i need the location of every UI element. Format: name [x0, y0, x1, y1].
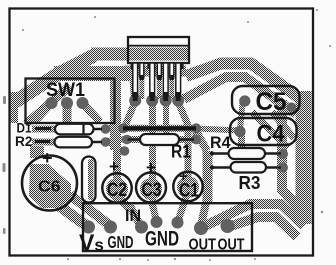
wire SW1 middle stem — [63, 103, 72, 126]
wire R1 right pad column — [193, 126, 200, 141]
pad IC pin4 — [172, 95, 184, 107]
svg-text:R1: R1 — [171, 142, 191, 162]
wire upper horizontal band into IC body — [91, 48, 189, 61]
wire right edge vertical band — [296, 91, 312, 224]
wire IC pad2 feed to C3 — [149, 100, 156, 207]
wire pin gap vertical c — [169, 74, 174, 99]
IC short pin 1 — [140, 63, 144, 80]
pad IC pin2 — [146, 95, 158, 107]
pad box GND mid — [151, 216, 163, 228]
IC U1 body — [128, 37, 189, 63]
wire OUT2 stem to corner — [228, 217, 297, 237]
capacitor C4 — [230, 118, 297, 148]
IC pin stubs — [131, 63, 184, 69]
svg-text:C5: C5 — [256, 88, 287, 116]
diode D1 — [17, 121, 103, 136]
wire R4 left vertical elbow to OUT1 pad — [201, 200, 207, 226]
pad IC pin3 — [160, 95, 172, 107]
wire C4 pad to R4 stem — [238, 133, 245, 149]
svg-text:+: + — [109, 157, 119, 176]
wire C6 to GND pad — [70, 195, 108, 224]
wire diagonal inside C4 — [252, 112, 288, 148]
pad column third — [120, 146, 130, 156]
wire C5 pad to C4 pad stem — [240, 103, 243, 130]
capacitor C6 — [22, 148, 77, 211]
wire pin gap vertical b — [157, 74, 162, 99]
wire under R1 — [127, 136, 196, 143]
capacitor C5 — [232, 86, 300, 116]
wire IC pad3 feed — [163, 100, 169, 142]
wire main diagonal from border blob — [13, 56, 94, 104]
IC short pin 3 — [170, 63, 174, 80]
wire left-border blob — [10, 92, 18, 123]
wire bar to C4 pad — [196, 129, 240, 131]
pad jumper right — [191, 123, 201, 133]
pad C5 left — [239, 95, 250, 106]
pad box OUT2 — [221, 219, 235, 233]
pad box GND1 — [104, 221, 117, 234]
pad box OUT1 — [194, 221, 208, 235]
wire C2 feed — [113, 148, 121, 202]
pad R1 left — [122, 135, 132, 145]
wire chevron inner right of IC to C5 — [184, 77, 296, 114]
wire SW1 left stem — [34, 103, 52, 122]
wire second diagonal through SW1 — [26, 86, 70, 124]
wire chevron outer right of IC down right edge — [186, 64, 301, 100]
resistor R1 — [128, 134, 195, 162]
resistor R4 — [210, 133, 281, 159]
pad box GND2 — [135, 221, 148, 234]
wire OUT1 stem to corner — [201, 204, 304, 228]
pad box extra — [172, 217, 184, 229]
IC long pin 1 — [133, 63, 138, 101]
wire elbow down to pad column — [110, 74, 121, 150]
pad IC pin1 — [129, 95, 141, 107]
svg-text:+: + — [42, 148, 53, 168]
svg-text:R4: R4 — [210, 133, 231, 152]
wire C3 feed to GND-mid pad stem — [153, 204, 157, 220]
wire C1 to pad diagonal — [178, 191, 188, 221]
pad box Vs — [82, 221, 95, 234]
svg-text:+: + — [146, 158, 156, 177]
IC short pin 2 — [157, 63, 161, 80]
svg-text:R3: R3 — [239, 173, 261, 193]
jumper capsule — [82, 157, 96, 203]
wire R2 into C6 — [30, 146, 44, 158]
wire link to third pad — [108, 143, 124, 151]
pad SW1 b — [61, 97, 73, 109]
pad R2 right — [101, 137, 111, 147]
wire band under IC pins — [124, 66, 186, 77]
capacitor C2 — [102, 157, 131, 203]
pad SW1 c — [77, 97, 89, 109]
terminal box — [83, 203, 252, 251]
wire IN pad stem — [130, 206, 140, 225]
IC long pin 2 — [150, 63, 155, 101]
wire D1 lead squiggle — [32, 126, 56, 133]
wire R2 lead squiggle — [32, 139, 56, 146]
resistor R3 — [210, 162, 281, 193]
wire diagonal inside C4 right — [272, 112, 294, 138]
svg-text:SW1: SW1 — [46, 80, 85, 101]
pad SW1 a — [46, 97, 58, 109]
wire IC pad1 feed — [125, 102, 135, 126]
wire elbow to IC pad1 — [134, 78, 136, 99]
svg-text:C2: C2 — [107, 180, 127, 201]
wire R4 R3 left vertical — [203, 151, 213, 203]
svg-text:GND: GND — [108, 232, 134, 252]
svg-text:GND: GND — [145, 228, 179, 251]
IC long pin 4 — [176, 63, 181, 101]
svg-text:IN: IN — [125, 206, 141, 225]
svg-text:C6: C6 — [38, 179, 61, 196]
wire R2 pad link — [104, 139, 125, 142]
svg-text:C3: C3 — [142, 180, 162, 201]
wire C2 feed elbow to IN stem — [117, 196, 129, 208]
wire C6 to Vs pad — [58, 205, 87, 226]
svg-text:C1: C1 — [179, 181, 199, 202]
wire bar pad to R4 vertical diagonal — [197, 132, 208, 151]
wire C6 blob — [29, 164, 71, 208]
pad R3 right — [278, 163, 288, 173]
pad jumper left — [118, 123, 128, 133]
IC long pin 3 — [163, 63, 168, 101]
pad C5 right — [287, 102, 296, 111]
wire SW1 right stem — [83, 103, 101, 122]
wire under jumper bar — [123, 125, 196, 132]
wire pin gap vertical a — [139, 74, 144, 99]
svg-text:R2: R2 — [15, 134, 33, 149]
svg-text:C4: C4 — [257, 121, 286, 148]
resistor R2 — [15, 134, 102, 149]
pad R4 right — [278, 149, 288, 159]
wire inner vertical band behind C4 R4 R3 — [282, 100, 305, 222]
pad R1 right — [191, 135, 201, 145]
wire D1 pad link — [104, 127, 124, 129]
capacitor C3 — [136, 158, 166, 203]
wire lower horizontal band over SW1 top — [54, 66, 137, 81]
pad C4 left — [234, 126, 245, 137]
wire IC pad4 feed to C1 — [178, 102, 188, 194]
pad D1 right — [101, 124, 111, 134]
jumper wire bar — [123, 126, 196, 130]
switch SW1 — [26, 79, 115, 124]
svg-text:OUT: OUT — [189, 237, 217, 254]
svg-text:OUT: OUT — [218, 237, 245, 254]
capacitor C1 — [173, 168, 202, 202]
